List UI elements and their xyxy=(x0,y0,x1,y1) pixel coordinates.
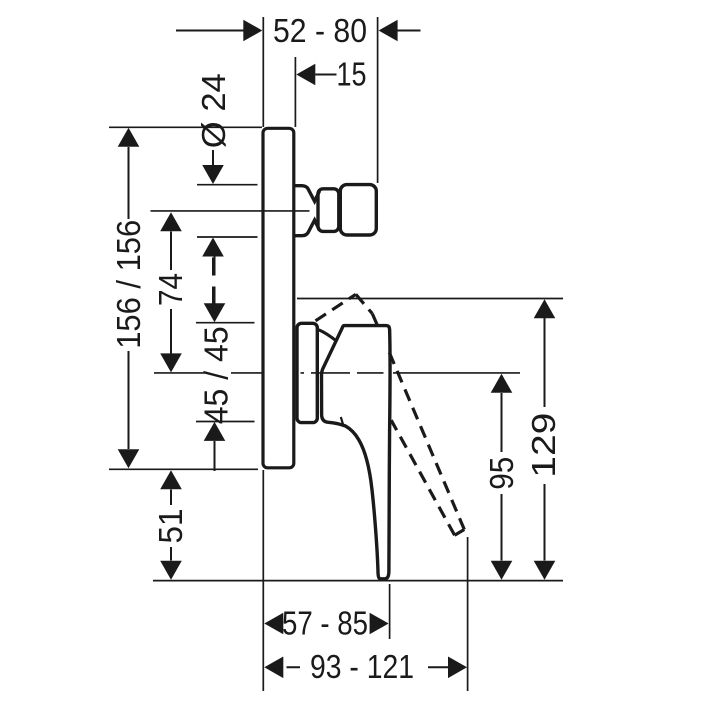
extension line dashed tip top xyxy=(297,298,563,300)
dimension dia 24 xyxy=(202,150,224,305)
knob ring xyxy=(318,189,339,232)
svg-text:45 / 45: 45 / 45 xyxy=(198,326,235,424)
hub arc xyxy=(319,330,337,342)
extension line dashed tip vertical xyxy=(467,537,469,691)
extension line wall vertical top xyxy=(262,17,264,127)
extension line knob tip vertical xyxy=(377,17,379,183)
extension line knob bottom xyxy=(197,236,258,238)
svg-text:15: 15 xyxy=(337,56,367,93)
extension line plate front vertical xyxy=(294,57,296,127)
dimension 129 xyxy=(534,299,556,580)
label 156/156 xyxy=(110,220,147,349)
label 93-121 xyxy=(310,648,414,685)
svg-text:57 - 85: 57 - 85 xyxy=(282,605,368,642)
label 45/45 xyxy=(198,326,235,424)
lever handle dashed open position xyxy=(316,294,465,535)
svg-text:51: 51 xyxy=(152,509,189,544)
extension line plate bottom xyxy=(109,468,258,470)
extension line wall vertical bottom xyxy=(262,470,264,691)
dimension 52-80 xyxy=(176,20,421,42)
label dia 24 xyxy=(195,73,232,148)
knob cap xyxy=(340,185,376,235)
dimension 95 xyxy=(491,374,513,580)
label 52-80 xyxy=(273,12,367,49)
extension line knob top xyxy=(197,184,258,186)
label 95 xyxy=(483,457,520,490)
svg-text:52 - 80: 52 - 80 xyxy=(273,12,367,49)
lever axis line xyxy=(154,372,520,374)
dimension 156/156 xyxy=(118,128,140,469)
svg-text:156 / 156: 156 / 156 xyxy=(110,220,147,349)
svg-text:95: 95 xyxy=(483,457,520,490)
label 57-85 xyxy=(282,605,368,642)
extension line sleeve bottom xyxy=(196,421,255,423)
handle sleeve xyxy=(297,323,317,422)
label 51 xyxy=(152,509,189,544)
dimension 57-85 xyxy=(264,613,388,635)
dimension 15 xyxy=(296,64,336,86)
svg-text:129: 129 xyxy=(525,413,562,478)
dimension 51 xyxy=(160,470,182,580)
svg-text:Ø 24: Ø 24 xyxy=(195,73,232,148)
label 74 xyxy=(152,273,189,306)
dimension 93-121 xyxy=(264,657,467,679)
knob neck bottom profile xyxy=(295,220,320,236)
lever blade nick xyxy=(341,417,344,426)
extension line lever tip vertical xyxy=(389,584,391,639)
label 15 xyxy=(337,56,367,93)
extension line plate top left xyxy=(109,126,262,128)
wall plate escutcheon xyxy=(263,128,294,468)
knob axis centerline xyxy=(151,210,310,212)
lever handle solid xyxy=(322,326,391,579)
extension line sleeve top xyxy=(196,322,255,324)
dimension 74 xyxy=(160,212,182,372)
svg-text:74: 74 xyxy=(152,273,189,306)
dimension 45/45 xyxy=(204,256,226,471)
svg-text:93 - 121: 93 - 121 xyxy=(310,648,414,685)
extension line lever tip bottom xyxy=(153,580,563,582)
label 129 xyxy=(525,413,562,478)
knob neck top profile xyxy=(295,186,320,202)
